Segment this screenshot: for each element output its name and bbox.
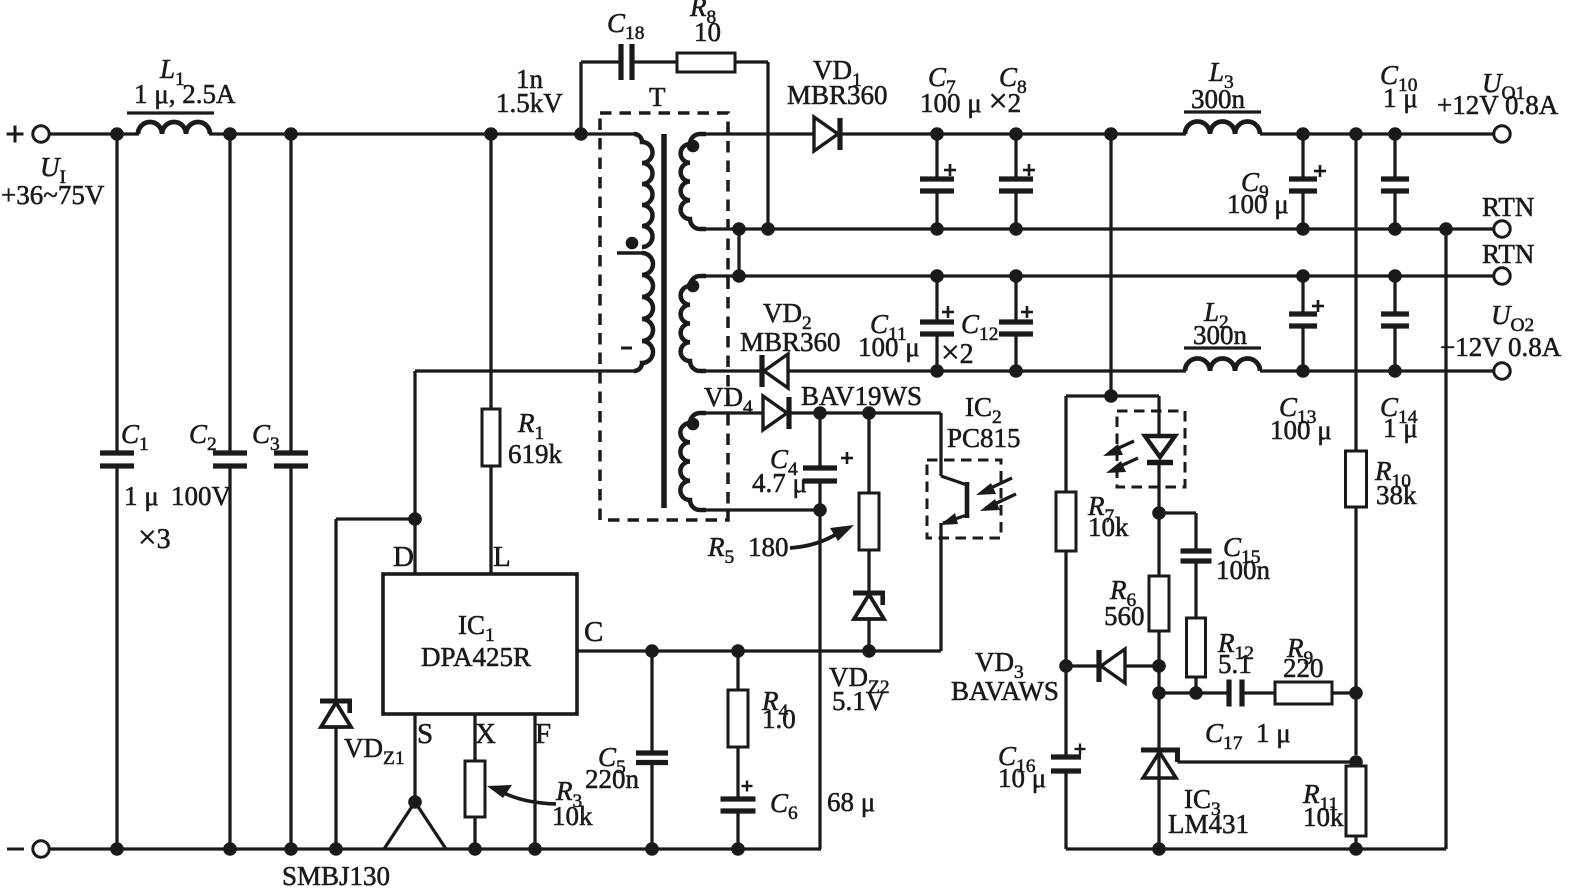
svg-text:1.0: 1.0 <box>762 704 796 734</box>
svg-text:560: 560 <box>1104 601 1145 631</box>
svg-text:10 μ: 10 μ <box>998 763 1046 793</box>
svg-text:300n: 300n <box>1193 320 1248 350</box>
svg-text:T: T <box>649 82 666 112</box>
svg-text:10k: 10k <box>552 801 593 831</box>
svg-text:BAVAWS: BAVAWS <box>951 676 1059 706</box>
svg-text:10k: 10k <box>1088 512 1129 542</box>
svg-text:4.7 μ: 4.7 μ <box>752 468 807 498</box>
svg-text:SMBJ130: SMBJ130 <box>282 861 390 887</box>
svg-text:RTN: RTN <box>1482 192 1534 222</box>
svg-text:−12V 0.8A: −12V 0.8A <box>1440 332 1562 362</box>
svg-text:100 μ ×2: 100 μ ×2 <box>920 83 1021 120</box>
svg-text:10: 10 <box>694 17 721 47</box>
svg-text:DPA425R: DPA425R <box>421 642 531 672</box>
svg-text:F: F <box>535 718 551 750</box>
svg-text:S: S <box>417 718 433 750</box>
svg-text:LM431: LM431 <box>1168 809 1249 839</box>
svg-text:PC815: PC815 <box>947 423 1021 453</box>
svg-text:1.5kV: 1.5kV <box>496 88 563 118</box>
svg-text:100 μ: 100 μ <box>1227 189 1289 219</box>
svg-text:5.1: 5.1 <box>1218 649 1252 679</box>
svg-text:MBR360: MBR360 <box>787 80 888 110</box>
svg-text:100n: 100n <box>1216 555 1271 585</box>
svg-text:+12V 0.8A: +12V 0.8A <box>1437 90 1559 120</box>
svg-text:C: C <box>584 616 603 648</box>
svg-text:220n: 220n <box>585 764 640 794</box>
svg-text:619k: 619k <box>508 439 563 469</box>
svg-text:1 μ: 1 μ <box>1383 413 1418 443</box>
svg-text:68 μ: 68 μ <box>827 787 875 817</box>
svg-text:+36~75V: +36~75V <box>1 180 105 210</box>
svg-text:5.1V: 5.1V <box>832 686 886 716</box>
svg-text:RTN: RTN <box>1482 239 1534 269</box>
svg-text:1 μ: 1 μ <box>1383 83 1418 113</box>
svg-text:×2: ×2 <box>941 335 974 371</box>
svg-text:1 μ: 1 μ <box>124 481 159 511</box>
svg-text:L: L <box>493 541 511 573</box>
svg-text:10k: 10k <box>1303 802 1344 832</box>
svg-text:38k: 38k <box>1376 480 1417 510</box>
svg-text:180: 180 <box>748 532 789 562</box>
svg-text:×3: ×3 <box>138 520 171 556</box>
svg-text:100 μ: 100 μ <box>858 332 920 362</box>
svg-text:300n: 300n <box>1191 84 1246 114</box>
svg-text:MBR360: MBR360 <box>740 327 841 357</box>
svg-text:1 μ, 2.5A: 1 μ, 2.5A <box>134 79 236 109</box>
svg-text:220: 220 <box>1283 653 1324 683</box>
svg-text:D: D <box>393 541 414 573</box>
svg-text:1 μ: 1 μ <box>1256 718 1291 748</box>
svg-text:100 μ: 100 μ <box>1270 415 1332 445</box>
svg-text:100V: 100V <box>171 481 232 511</box>
svg-text:BAV19WS: BAV19WS <box>801 381 922 411</box>
svg-text:X: X <box>475 718 496 750</box>
